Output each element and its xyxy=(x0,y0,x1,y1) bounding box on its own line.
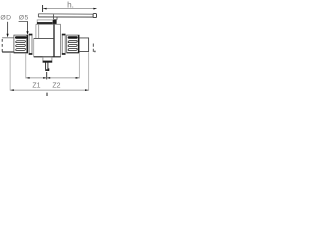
dimension h line xyxy=(43,8,97,10)
dimension h left arrow xyxy=(43,8,46,10)
extension line left nut xyxy=(25,54,27,79)
handle top edge xyxy=(38,13,94,15)
left nut knurl band 2 xyxy=(16,41,26,43)
right tailpiece hidden dashes xyxy=(92,44,94,54)
left nut knurl band 3 xyxy=(16,45,26,47)
body center divider xyxy=(53,24,55,56)
right tailpiece hidden dot xyxy=(94,51,95,53)
leader OS arrow xyxy=(26,31,28,35)
left nut knurl band 1 xyxy=(15,36,27,38)
right nut knurl band 3 xyxy=(68,45,77,47)
drain stem right xyxy=(47,63,49,70)
left union nut outline xyxy=(14,35,28,53)
gland nut outline xyxy=(37,20,52,24)
leader OD arrow xyxy=(7,34,9,38)
left ring top cap xyxy=(29,34,33,36)
svg-text:Z2: Z2 xyxy=(52,83,60,90)
body left lower edge xyxy=(33,38,35,56)
leader OD vertical xyxy=(7,22,9,34)
right ring bottom cap xyxy=(62,53,66,55)
handle hub dark block xyxy=(53,20,57,24)
upper dim centre right arrow xyxy=(47,77,50,79)
svg-text:h.: h. xyxy=(67,0,74,9)
svg-text:Z1: Z1 xyxy=(32,83,40,90)
drain foot nub xyxy=(48,68,49,71)
extension line left tail xyxy=(9,53,11,90)
right nut knurl band 4 xyxy=(68,49,77,51)
left ring bottom cap xyxy=(29,53,33,55)
left union nut right dark edge xyxy=(27,35,29,53)
lower dimension line xyxy=(10,89,89,91)
left tailpiece dashed end xyxy=(1,39,3,52)
left tailpiece bottom dark edge xyxy=(2,51,14,53)
right nut knurl band 1 xyxy=(68,36,78,38)
drain stem left xyxy=(45,63,47,70)
body bottom edge xyxy=(34,56,61,58)
body port shoulder line xyxy=(34,37,54,39)
right ring left edge xyxy=(61,34,63,55)
extension line right tail xyxy=(88,52,90,90)
lower dim right arrow xyxy=(85,89,89,91)
handle right end cap xyxy=(93,14,96,18)
drain foot xyxy=(45,69,49,71)
upper dim left arrow xyxy=(26,77,29,79)
body neck inner line xyxy=(38,24,40,38)
upper dim centre left arrow xyxy=(43,77,46,79)
handle left end cap xyxy=(37,14,39,17)
upper dimension line Z1 Z2 xyxy=(26,77,79,79)
bottom centre tick mark xyxy=(46,93,48,96)
left tailpiece outline xyxy=(2,37,14,39)
upper dim right arrow xyxy=(76,77,80,79)
left nut knurl band 4 xyxy=(16,49,26,51)
right union nut right dark edge xyxy=(78,35,79,53)
extension line right nut xyxy=(78,54,80,79)
dimension h right arrow xyxy=(93,8,96,10)
left ring right edge xyxy=(31,34,33,55)
drain block outline xyxy=(43,57,52,62)
body right edge xyxy=(60,24,62,56)
right tailpiece outline xyxy=(79,38,88,52)
handle bottom edge xyxy=(38,16,93,18)
body neck left line xyxy=(35,24,37,38)
svg-text:ØD: ØD xyxy=(0,15,11,22)
left ring left edge xyxy=(28,34,30,55)
svg-text:Ø5: Ø5 xyxy=(19,15,29,22)
body top edge xyxy=(36,23,61,25)
leader OS underline xyxy=(19,21,28,23)
gland nut dark band xyxy=(37,22,53,24)
right union nut bottom dark edge xyxy=(67,52,80,54)
centre extension tick xyxy=(46,72,48,79)
leader OS vertical xyxy=(27,22,29,32)
right ring top cap xyxy=(62,34,66,36)
lower dim left arrow xyxy=(10,89,14,91)
left union nut bottom dark edge xyxy=(14,52,28,54)
dimension h tick xyxy=(42,5,44,12)
drain block dark band xyxy=(43,61,52,63)
right ring right edge xyxy=(64,34,66,55)
right union nut outline xyxy=(67,35,79,53)
handle hub step xyxy=(54,14,58,19)
right nut knurl band 2 xyxy=(68,41,77,43)
